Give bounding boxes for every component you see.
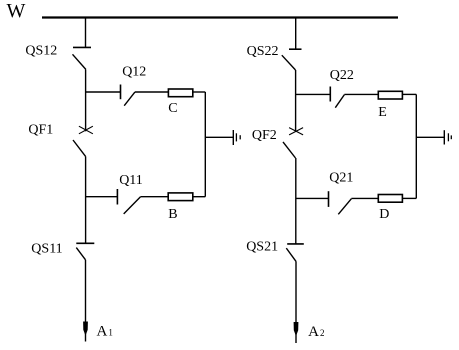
svg-text:Q21: Q21	[329, 170, 353, 185]
svg-text:QS12: QS12	[25, 44, 57, 59]
wire QS11 to feeder A1	[85, 260, 87, 322]
breaker QF1 blade	[73, 140, 86, 156]
wire QS22 to QF2	[295, 70, 297, 131]
disconnector QS21 blade	[286, 248, 296, 262]
wire to ground bay 1	[205, 136, 233, 138]
svg-text:B: B	[168, 207, 177, 222]
wire QF1 to QS11	[85, 156, 87, 243]
svg-text:A1: A1	[97, 324, 113, 340]
svg-text:D: D	[379, 207, 389, 222]
breaker QF1 cross	[79, 126, 93, 134]
wire blade to box C	[135, 91, 168, 93]
wire to ground bay 2	[416, 136, 444, 138]
wire Q11 branch	[86, 196, 118, 198]
svg-text:C: C	[168, 101, 177, 116]
contact Q21 blade	[338, 199, 351, 215]
wire box C to corner	[193, 91, 206, 93]
contact Q22 fixed bar	[329, 87, 331, 102]
box E	[378, 91, 402, 99]
wire QS21 to feeder A2	[295, 262, 297, 322]
contact Q21 fixed bar	[328, 191, 330, 207]
disconnector QS12 contact bar	[73, 46, 91, 48]
wire blade to box D	[351, 197, 378, 199]
wire Q12 branch	[86, 91, 121, 93]
wire QS12 to QF1	[85, 69, 87, 131]
box C	[168, 89, 192, 97]
disconnector QS22 contact bar	[289, 48, 302, 50]
svg-text:QS22: QS22	[247, 44, 279, 59]
wire bus to QS12	[85, 18, 87, 48]
contact Q12 blade	[124, 92, 135, 106]
contact Q11 blade	[124, 197, 141, 214]
box D	[378, 195, 402, 203]
breaker QF2 blade	[283, 142, 296, 158]
wire bus to QS22	[295, 18, 297, 50]
disconnector QS12 blade	[73, 54, 86, 69]
wire Q21 branch	[296, 197, 329, 199]
svg-text:Q12: Q12	[122, 64, 146, 79]
ground bay 2	[443, 130, 445, 144]
disconnector QS11 contact bar	[76, 242, 94, 244]
wire right loop vertical bay 2	[415, 94, 417, 198]
svg-text:A2: A2	[308, 324, 324, 340]
svg-text:QS11: QS11	[31, 242, 62, 257]
svg-text:Q22: Q22	[330, 68, 354, 83]
svg-text:QS21: QS21	[246, 240, 278, 255]
wire box B to corner	[193, 196, 206, 198]
arrow feeder A2	[294, 322, 299, 336]
wire blade to box B	[140, 196, 168, 198]
disconnector QS11 blade	[76, 248, 85, 260]
wire QF2 to QS21	[295, 158, 297, 244]
wire blade to box E	[344, 93, 378, 95]
wire box E to corner	[402, 93, 416, 95]
disconnector QS22 blade	[282, 55, 296, 70]
contact Q11 fixed bar	[116, 189, 118, 205]
contact Q12 fixed bar	[120, 85, 122, 100]
arrow feeder A1	[83, 322, 88, 336]
ground bay 1	[232, 130, 234, 145]
busbar W	[42, 16, 398, 18]
wire right loop vertical bay 1	[204, 92, 206, 197]
disconnector QS21 contact bar	[287, 243, 304, 245]
wire box D to corner	[402, 197, 416, 199]
svg-text:QF2: QF2	[252, 128, 277, 143]
wire Q22 branch	[296, 93, 331, 95]
box B	[168, 193, 193, 201]
breaker QF2 cross	[289, 128, 303, 135]
svg-text:QF1: QF1	[28, 122, 53, 137]
svg-text:W: W	[7, 0, 26, 22]
svg-text:E: E	[378, 105, 387, 120]
contact Q22 blade	[335, 95, 344, 108]
svg-text:Q11: Q11	[119, 173, 143, 188]
